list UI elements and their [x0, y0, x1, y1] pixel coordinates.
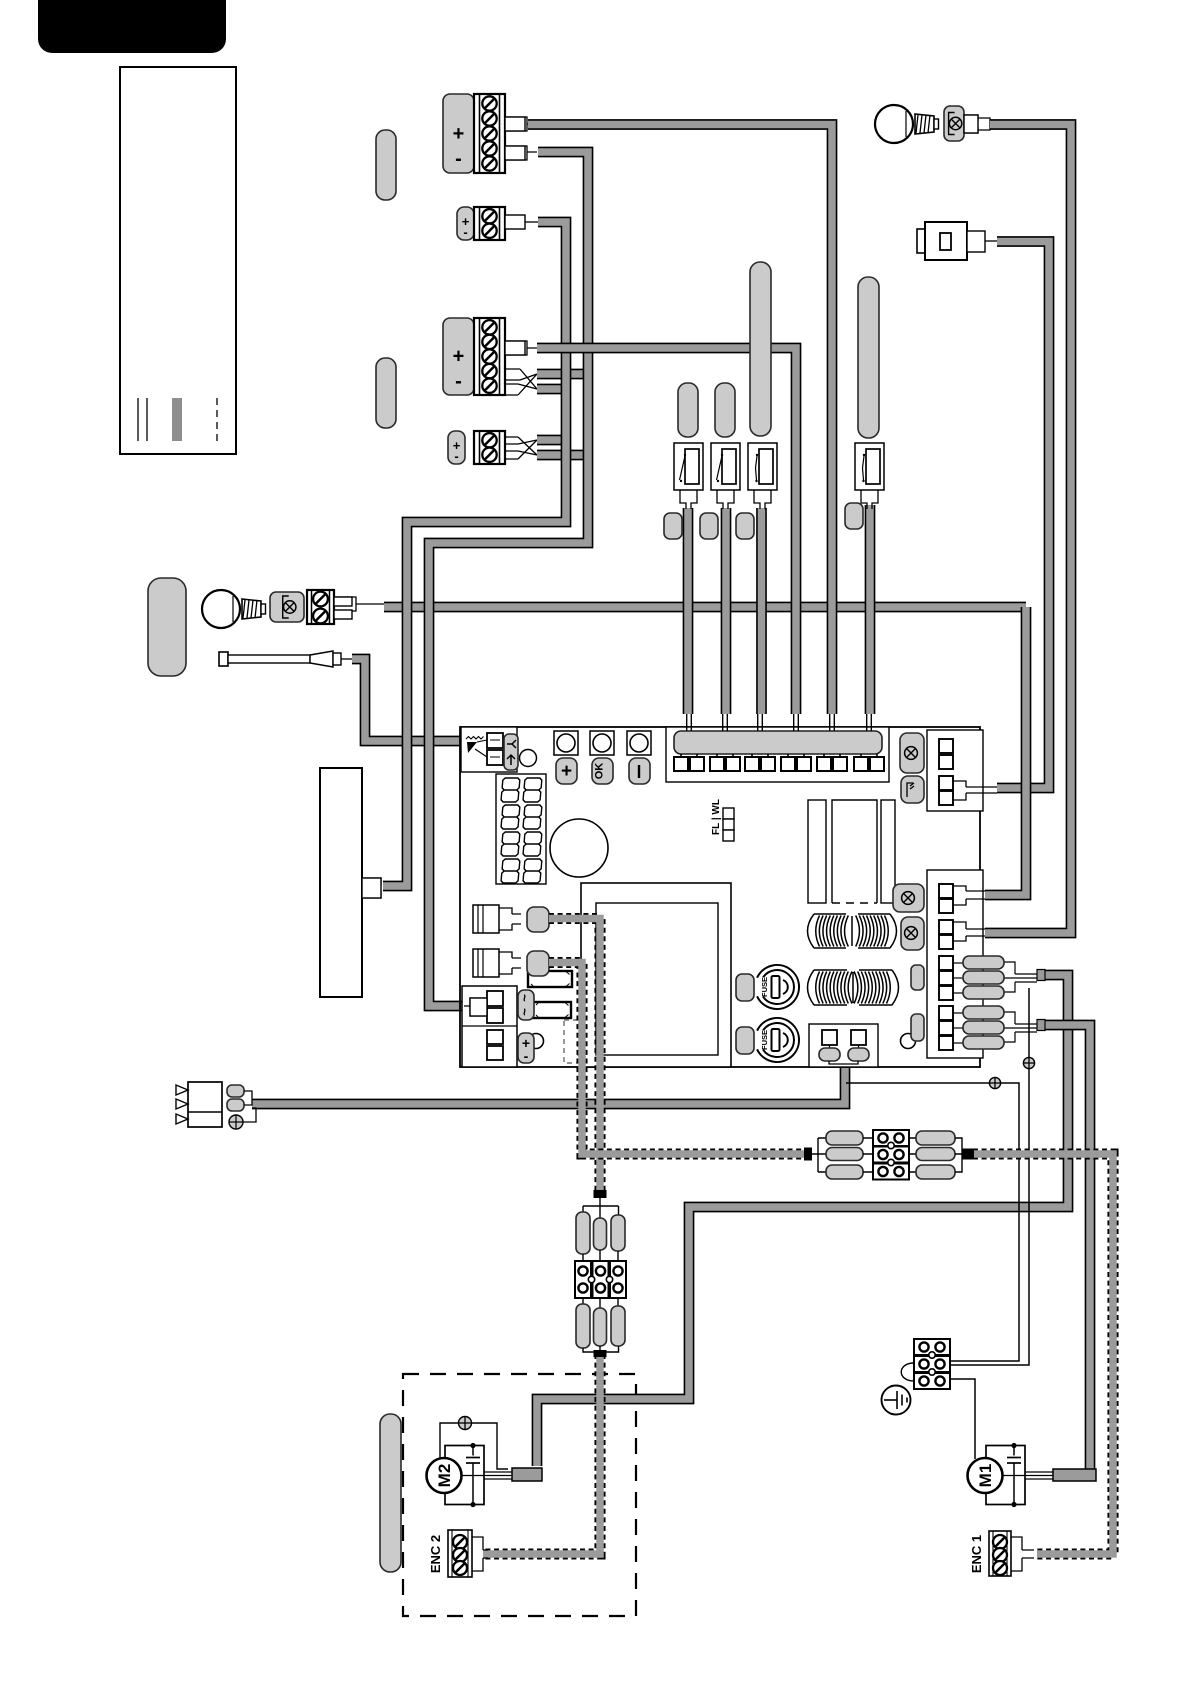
splice junction (M1 cable): [804, 1148, 812, 1161]
lamp terminal block: [307, 590, 334, 624]
cable end cap 3: [736, 513, 754, 539]
relay K1: [808, 800, 826, 903]
photocell RX2 terminal block: [474, 431, 505, 464]
command pill 2: [715, 383, 735, 437]
svg-text:FUSE: FUSE: [760, 977, 769, 997]
plug terminals: [227, 1085, 244, 1097]
command pill 3 (tall): [750, 262, 771, 436]
svg-text:-: -: [454, 449, 458, 464]
legend: thick gray wire sample: [172, 398, 182, 441]
lamp stub: [334, 597, 384, 617]
bulb stub: [964, 115, 990, 133]
right connector box (outputs/motors): [927, 870, 983, 1058]
legend: thin double line sample: [137, 398, 139, 441]
external display device: [320, 768, 362, 997]
earth junction block: [914, 1339, 950, 1355]
wire: antenna to board: [352, 659, 464, 741]
RX2 crossed wires to bus: [505, 437, 537, 459]
svg-text:ENC 2: ENC 2: [428, 1535, 443, 1573]
photocell TX2 +/- label: [443, 318, 474, 395]
transformer outline outer: [581, 883, 731, 1067]
coil L1: [808, 914, 897, 948]
display device plug: [362, 878, 381, 898]
M2 gate pill: [380, 1414, 401, 1572]
plug pins: [176, 1085, 188, 1095]
battery terminals: [487, 1030, 503, 1044]
battery +/- label: [518, 1033, 534, 1063]
wire: TX1 output to strip: [528, 125, 832, 715]
encoder cable ENC1 (right run): [973, 1154, 1113, 1554]
strip terminals: [674, 757, 688, 771]
7-segment display: [496, 774, 546, 884]
wire: TX2 to bus A: [537, 384, 566, 395]
svg-text:~: ~: [517, 994, 532, 1002]
wire: courtesy bulb to board: [985, 125, 1071, 934]
command pill 4 (tall): [858, 277, 879, 438]
M1 cable connector: [1053, 1469, 1096, 1481]
button label +: [556, 758, 577, 784]
mains plug: [188, 1082, 222, 1127]
relay output terminals: [939, 739, 953, 753]
svg-text:M2: M2: [435, 1464, 454, 1488]
cable end cap 2: [700, 513, 718, 539]
encoder cable ENC2 (lower run): [483, 1354, 600, 1554]
board antenna terminal box: [461, 727, 517, 772]
wire: photocell bus B (TX1): [429, 152, 588, 1006]
earth wire junction to M1: [951, 1379, 975, 1459]
svg-text:+: +: [453, 346, 465, 368]
antenna jack device: [917, 229, 925, 253]
button label -: [629, 758, 650, 784]
board lamp sym 1: [900, 733, 924, 773]
antenna label: [504, 734, 518, 770]
lamp bulb BL1: [202, 590, 240, 628]
wire: board to motor M2: [537, 975, 1068, 1466]
M2 earth point: [459, 1417, 472, 1430]
fuse pill 2: [736, 1027, 754, 1054]
TX1 stub 2: [505, 146, 537, 160]
TX1 stub 1: [505, 117, 537, 131]
encoder cable ENC1 (left run): [549, 963, 805, 1155]
board ENC1 connector: [473, 949, 499, 977]
wire: TX2 output to strip: [537, 348, 796, 714]
flashing lamp housing pill: [148, 578, 186, 676]
wire: lamp output to board: [384, 602, 1026, 613]
wire: RX2 to bus A: [537, 435, 566, 446]
coil L2: [808, 970, 899, 1005]
svg-text:OK: OK: [594, 763, 606, 780]
fuse holder FH2: [533, 1002, 571, 1018]
output terminals G1 G2: [939, 884, 953, 898]
svg-text:-: -: [463, 225, 467, 240]
svg-text:+: +: [453, 123, 465, 145]
motor M1: [986, 1446, 1025, 1505]
title block (black): [38, 0, 226, 53]
splice junction (M2 cable): [594, 1190, 607, 1198]
board circle feature: [520, 750, 537, 767]
switch S1 (NO contact): [674, 443, 703, 490]
transformer outline inner: [596, 903, 718, 1055]
button label OK: [592, 758, 613, 784]
wire: photocell bus A (RX1): [383, 222, 566, 886]
wire: command device 2 to strip: [721, 508, 732, 714]
command pill 1: [678, 383, 698, 437]
right connector box (relay outputs): [927, 730, 983, 811]
svg-text:FL | WL: FL | WL: [711, 799, 722, 835]
svg-text:M1: M1: [976, 1464, 995, 1488]
board pill A: [911, 965, 924, 990]
wire: command device 4 to strip: [865, 505, 876, 714]
svg-text:FUSE: FUSE: [760, 1030, 769, 1050]
board lamp sym 3: [901, 917, 924, 950]
battery dashed placeholder: [564, 1020, 578, 1063]
antenna jack stub: [967, 231, 985, 252]
photocell RX1 +/- label: [457, 207, 474, 240]
relay K3: [881, 800, 895, 903]
motor M2 earth loop: [440, 1423, 508, 1469]
earth wire from mains to junction: [846, 1083, 1019, 1361]
svg-text:+: +: [561, 761, 572, 782]
board circle B: [901, 1034, 916, 1049]
wire: board to motor M1: [1039, 1025, 1090, 1475]
legend: dashed line sample: [216, 398, 218, 441]
encoder cable ENC2 (upper run): [549, 919, 600, 1193]
photocell TX2 pill: [376, 358, 396, 428]
lamp holder symbol: [270, 592, 304, 622]
TX2 crossed wires to bus: [505, 369, 537, 395]
earth ground symbol: [882, 1386, 911, 1415]
photocell TX2 terminal block: [474, 318, 505, 395]
fuse pill 1: [736, 974, 754, 1001]
switch S2 (NO contact): [711, 443, 740, 490]
wire: mains plug to board: [252, 1060, 845, 1104]
AC ~ label: [518, 990, 534, 1020]
battery circle: [529, 1034, 544, 1049]
svg-text:~: ~: [517, 1008, 532, 1016]
M2 wire start cap: [1037, 970, 1045, 981]
courtesy light bulb: [875, 105, 913, 143]
board ENC1 plug: [527, 951, 549, 976]
fuse F1: [757, 965, 799, 1009]
RX1 stub: [505, 215, 525, 229]
wire: RX2 to bus B: [537, 450, 588, 461]
earth point 1: [989, 1077, 1000, 1088]
fuse F2: [757, 1018, 799, 1062]
board pill B: [911, 1014, 924, 1041]
photocell RX2 +/- label: [448, 431, 465, 464]
svg-text:-: -: [524, 1048, 529, 1064]
svg-text:-: -: [455, 148, 462, 170]
board ENC2 connector: [473, 905, 499, 933]
M1 wire start cap: [1037, 1020, 1045, 1031]
photocell RX1 terminal block: [474, 207, 505, 240]
cable end cap 4: [845, 503, 863, 529]
M2 cable connector: [512, 1468, 542, 1481]
AC input box: [462, 986, 517, 1067]
mains plug ovals: [819, 1048, 840, 1061]
motor M2 output terminals: [939, 956, 953, 970]
mains terminal box: [809, 1024, 878, 1067]
M2 enclosure dashed box: [403, 1374, 636, 1616]
antenna terminal screws: [487, 733, 503, 748]
wire: command device 1 to strip: [683, 508, 694, 714]
svg-text:-: -: [455, 370, 462, 392]
buzzer: [550, 819, 608, 877]
board lamp sym 2: [893, 884, 924, 912]
button -: [627, 731, 651, 755]
antenna wire entry detail: [466, 737, 484, 740]
wire: command device 3 to strip: [756, 508, 767, 714]
switch S4 (NC contact): [855, 443, 884, 490]
wire: TX2 to bus B: [537, 369, 588, 380]
legend box: [120, 67, 236, 454]
cable end cap 1: [664, 513, 682, 539]
wire: lamp wire vertical drop: [985, 607, 1026, 895]
earth wire from board to junction: [951, 988, 1029, 1365]
motor M1 output terminals: [939, 1006, 953, 1020]
button OK: [590, 731, 614, 755]
relay K2: [832, 800, 877, 903]
board ENC2 plug: [527, 907, 549, 932]
switch S3 (NC contact): [748, 443, 777, 490]
courtesy light holder: [944, 106, 964, 141]
button +: [554, 731, 578, 755]
control board outline: [460, 727, 980, 1067]
antenna rod: [219, 652, 228, 666]
mains terminals: [822, 1030, 837, 1045]
fuse holder FH1: [528, 971, 572, 987]
photocell TX1 terminal block: [474, 94, 505, 173]
board radio sym: [901, 776, 924, 803]
photocell TX1 +/- label: [443, 94, 474, 173]
wire: antenna jack to board: [997, 242, 1049, 789]
TX2 stub 1: [505, 341, 537, 355]
motor M2: [445, 1446, 484, 1505]
terminal strip box: [666, 727, 889, 782]
photocell TX1 pill: [376, 130, 396, 200]
AC terminals: [487, 991, 503, 1006]
svg-text:ENC 1: ENC 1: [969, 1535, 984, 1573]
terminal strip bar: [674, 731, 882, 754]
earth point 2: [1023, 1057, 1034, 1068]
